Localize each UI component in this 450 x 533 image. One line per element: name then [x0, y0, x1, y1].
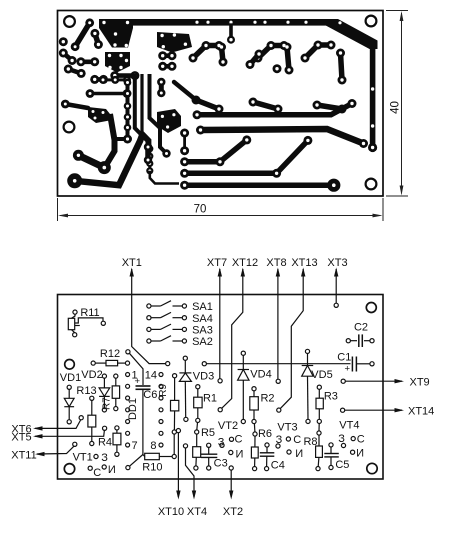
dimension line 70 [60, 215, 381, 217]
node pad XT6 term [79, 416, 83, 420]
wire XT11 [37, 446, 74, 454]
node pad XT12 term [218, 408, 222, 412]
arrowhead XT11 [35, 452, 45, 456]
left column pads [59, 37, 68, 46]
blob B1 (triangle merged with bus) [99, 19, 133, 48]
big pad B [98, 161, 111, 174]
node pad XT14 [341, 408, 345, 412]
resistor R1 [194, 389, 202, 419]
mounting hole bottom-right [367, 463, 377, 473]
top copper bus [99, 19, 335, 26]
svg-text:И: И [295, 448, 303, 460]
board outline [58, 11, 384, 197]
resistor R3 [316, 389, 323, 419]
long horizontal trace [90, 92, 127, 96]
node pad XT11 term [73, 442, 77, 446]
svg-text:XT2: XT2 [223, 506, 243, 518]
switch SA3 [151, 324, 183, 329]
svg-text:С: С [235, 434, 243, 446]
node pad XT2 [229, 466, 233, 470]
diode VD4 [238, 355, 249, 419]
node pad XT1 term [166, 362, 170, 366]
thick drop from blob B4 to pad B [106, 114, 115, 166]
svg-text:VD3: VD3 [193, 371, 214, 383]
node pad XT3 term [334, 303, 338, 307]
svg-text:З: З [101, 452, 108, 464]
svg-text:R13: R13 [76, 385, 96, 397]
svg-text:SA2: SA2 [192, 336, 213, 348]
svg-text:XT5: XT5 [11, 431, 31, 443]
diode VD3 [179, 360, 191, 417]
center blob B5 [157, 109, 181, 133]
resistor R2 [250, 391, 258, 420]
pad end of vertical bar [368, 143, 377, 152]
wire XT12 [222, 269, 243, 408]
svg-text:R10: R10 [142, 462, 162, 474]
mounting hole top-left [65, 360, 75, 370]
arrowhead XT8 [276, 268, 280, 277]
wire C1 bus [206, 363, 350, 365]
dim arrow up [400, 11, 404, 21]
IC DD1 pads left column [126, 373, 130, 448]
capacitor C1 [352, 357, 370, 372]
capacitor C4 [260, 447, 275, 467]
svg-text:DD1: DD1 [127, 398, 139, 420]
svg-text:8: 8 [150, 440, 156, 452]
dimension extension line bottom left [57, 198, 59, 221]
arrowhead XT7 [218, 268, 222, 277]
snake trace s3 [150, 74, 167, 153]
capacitor C2 [350, 334, 370, 347]
resistor R8 [316, 435, 323, 467]
svg-text:R9: R9 [158, 384, 169, 397]
svg-text:XT14: XT14 [408, 405, 434, 417]
transistor VT2 [220, 443, 224, 447]
node pad XT4 [183, 444, 187, 448]
svg-text:И: И [236, 448, 244, 460]
via holes in bus [195, 21, 374, 150]
svg-text:VT2: VT2 [218, 420, 238, 432]
svg-text:VD4: VD4 [250, 368, 271, 380]
svg-text:14: 14 [145, 370, 157, 382]
wire XT2 [230, 470, 232, 497]
svg-text:VT3: VT3 [277, 421, 297, 433]
resistor R11 [68, 314, 103, 333]
bus bend to right [326, 19, 378, 49]
svg-text:R12: R12 [100, 348, 120, 360]
node pad XT13 term [277, 408, 281, 412]
mounting hole BR [366, 179, 377, 190]
wire XT9 [345, 380, 402, 382]
mounting hole bottom-left [64, 464, 74, 474]
svg-text:С: С [293, 434, 301, 446]
svg-text:XT12: XT12 [232, 257, 258, 269]
IC DD1 pads right column [159, 373, 163, 448]
long bar T2 [201, 129, 364, 144]
svg-text:SA4: SA4 [192, 313, 213, 325]
mid-left pad chain [103, 78, 127, 81]
node pad XT10 [176, 429, 180, 433]
svg-text:И: И [356, 447, 364, 459]
mounting hole top-right [366, 303, 376, 313]
staircase motif 2 [258, 46, 271, 59]
arrowhead XT2 [229, 491, 233, 500]
resistor R5 [193, 434, 201, 466]
arrowhead XT5 [33, 434, 43, 438]
right bottom bar stack: left pads column [183, 133, 186, 151]
dimension line 40 [401, 13, 403, 194]
board outline [58, 295, 384, 480]
big pad A [73, 150, 84, 161]
svg-text:XT8: XT8 [266, 257, 286, 269]
svg-text:R6: R6 [258, 428, 272, 440]
svg-text:R8: R8 [303, 436, 317, 448]
resistor R9 [171, 378, 179, 455]
svg-text:З: З [276, 434, 283, 446]
svg-text:SA1: SA1 [192, 301, 213, 313]
node pad XT5 term [103, 426, 107, 430]
svg-text:7: 7 [132, 440, 138, 452]
svg-text:40: 40 [390, 101, 402, 114]
mounting hole TR [366, 16, 377, 27]
trace A-B [78, 155, 104, 167]
wire R3 to R8 [318, 423, 320, 431]
svg-text:XT1: XT1 [122, 257, 142, 269]
bar B with diagonal [185, 140, 308, 173]
diode VD5 [302, 353, 314, 419]
svg-text:C4: C4 [271, 460, 285, 472]
svg-text:XT9: XT9 [410, 376, 430, 388]
resistor R13 [88, 400, 96, 441]
switch SA2 [151, 336, 183, 341]
svg-text:C1: C1 [337, 352, 351, 364]
arrowhead XT1 [130, 268, 134, 277]
svg-text:R4: R4 [98, 437, 112, 449]
wire XT4 [186, 448, 195, 497]
svg-text:VT4: VT4 [339, 420, 359, 432]
wire pad to C6 [129, 353, 143, 385]
svg-text:+: + [345, 363, 351, 374]
arrowhead XT10 [176, 491, 180, 500]
svg-text:R11: R11 [80, 307, 99, 319]
svg-text:SA3: SA3 [192, 325, 213, 337]
arrowhead XT12 [241, 268, 245, 277]
short diagonal [65, 104, 88, 108]
resistor R10 [130, 453, 173, 466]
dimension extension line right bottom [386, 195, 408, 197]
dim arrow down [400, 186, 404, 196]
wire XT10 [177, 433, 179, 498]
svg-text:C6: C6 [143, 389, 157, 401]
shallow diagonal traces row [196, 100, 342, 109]
svg-text:XT11: XT11 [11, 450, 36, 462]
svg-text:R5: R5 [201, 427, 215, 439]
dimension extension line top right [386, 10, 408, 12]
diode VD1 [64, 389, 74, 420]
svg-text:70: 70 [194, 204, 207, 216]
blob B4 [88, 107, 112, 123]
svg-text:C3: C3 [214, 458, 228, 470]
vertical pad column x=127.5 [126, 82, 130, 139]
svg-text:XT7: XT7 [207, 257, 227, 269]
vertical dumbbell x=161 [159, 82, 164, 93]
transistor VT4 [341, 443, 345, 447]
wire R1 to R5 [196, 423, 199, 431]
staircase motif 3 [305, 45, 318, 58]
node pad XT8 term [276, 379, 280, 383]
wire XT14 [345, 409, 402, 411]
resistor R6 [251, 436, 258, 467]
arrowhead XT4 [192, 491, 196, 500]
switch SA4 [151, 312, 183, 317]
svg-text:С: С [93, 467, 101, 479]
wire XT8 [277, 269, 279, 379]
resistor R4 [113, 430, 121, 452]
mounting hole ML [64, 122, 75, 133]
wire XT5 [35, 430, 104, 436]
arrowhead XT9 [395, 379, 405, 383]
dim arrow left [58, 214, 68, 218]
arrowhead XT3 [334, 268, 338, 277]
vertical dumbbell mid [145, 147, 151, 160]
wire R2 to R6 [253, 424, 256, 433]
svg-text:XT10: XT10 [158, 506, 184, 518]
svg-text:1: 1 [132, 370, 138, 382]
svg-text:R2: R2 [260, 392, 274, 404]
svg-text:R1: R1 [203, 393, 217, 405]
dimension extension line bottom right [382, 198, 384, 221]
arrowhead XT13 [301, 268, 305, 277]
svg-text:VT1: VT1 [73, 451, 93, 463]
svg-text:XT4: XT4 [187, 506, 207, 518]
switch SA1 [151, 301, 183, 306]
svg-text:VD5: VD5 [311, 369, 332, 381]
diag feed to shallow dumbbell [174, 82, 196, 100]
mounting hole TL [64, 16, 75, 27]
svg-text:З: З [218, 436, 225, 448]
svg-text:И: И [108, 464, 116, 476]
resistor R7 [112, 378, 119, 407]
svg-text:C5: C5 [335, 459, 349, 471]
svg-text:XT13: XT13 [291, 257, 317, 269]
arrowhead XT14 [395, 408, 405, 412]
node pad XT7 term [218, 379, 222, 383]
wire XT1 [132, 269, 166, 364]
svg-text:VD1: VD1 [60, 372, 81, 384]
thick trace E up-right [75, 133, 143, 185]
chain tail wire [150, 171, 179, 184]
big pad E [67, 173, 82, 188]
node pad XT9 [341, 379, 345, 383]
dim arrow right [373, 214, 383, 218]
bus stub [229, 25, 233, 40]
snake trace s2 feeding mini chain [142, 74, 150, 148]
wire XT6 [35, 420, 81, 429]
arrowhead XT6 [33, 426, 43, 430]
svg-text:З: З [338, 433, 345, 445]
blob B2 (arrow shape) [157, 32, 192, 53]
inter-motif diagonal 1 [148, 54, 259, 160]
trace TL diagonal [75, 23, 98, 47]
svg-text:R7: R7 [102, 397, 113, 410]
mini pad chain [148, 149, 151, 171]
wire XT7 [219, 269, 221, 379]
svg-text:C2: C2 [354, 322, 368, 334]
right vertical copper bar [370, 44, 376, 148]
svg-text:VD2: VD2 [81, 369, 102, 381]
capacitor C5 [324, 447, 339, 466]
bar C with diagonal [185, 140, 247, 162]
svg-text:XT3: XT3 [327, 257, 347, 269]
wire XT13 [280, 269, 303, 408]
staircase motif 1 [193, 25, 342, 80]
snake trace s1 [135, 74, 148, 146]
capacitor C6 [136, 386, 151, 455]
svg-text:R3: R3 [324, 391, 338, 403]
wire XT3 [335, 269, 337, 303]
blob B3 (pentagon) [105, 52, 130, 73]
transistor VT1 [94, 454, 98, 458]
resistor R12 [95, 360, 125, 365]
bar A [185, 182, 334, 188]
stub to pad column bottom [115, 137, 126, 141]
bar left-end pads [180, 157, 189, 166]
svg-text:С: С [357, 433, 365, 445]
long bar T1 [185, 104, 364, 186]
capacitor C3 [201, 447, 217, 466]
diode VD2 [99, 378, 110, 408]
transistor VT3 [276, 444, 280, 448]
